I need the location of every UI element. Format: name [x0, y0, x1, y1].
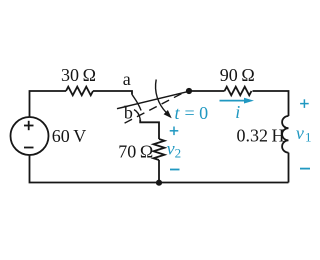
svg-text:30 Ω: 30 Ω — [61, 65, 96, 85]
svg-text:a: a — [123, 69, 131, 89]
voltage source minus sign — [24, 147, 34, 149]
v1 polarity plus — [300, 99, 309, 108]
svg-text:i: i — [235, 102, 240, 122]
svg-text:1: 1 — [305, 130, 312, 145]
switch motion arrowhead — [164, 110, 172, 118]
current arrow i head — [244, 98, 254, 104]
junction dot bottom node — [156, 180, 162, 186]
switch contact b tick — [134, 110, 140, 120]
svg-text:0.32 H: 0.32 H — [236, 126, 284, 146]
svg-text:v: v — [167, 138, 175, 158]
resistor R 70 ohm vertical zigzag — [154, 139, 165, 160]
wire inductor bottom to bottom rail — [288, 153, 290, 183]
svg-text:90 Ω: 90 Ω — [220, 65, 255, 85]
switch contact a tick — [132, 95, 141, 111]
wire pivot to 90 ohm resistor — [189, 90, 225, 92]
switch blade dashed position b — [121, 94, 181, 125]
bottom wire rail — [30, 155, 289, 183]
v2 polarity minus — [170, 169, 180, 171]
v1 polarity minus — [300, 168, 310, 170]
wire source top to 30 ohm resistor — [30, 91, 67, 117]
voltage source V1 circle — [11, 117, 49, 155]
resistor R 30 ohm zigzag — [66, 87, 93, 96]
inductor L 0.32 H coil — [282, 116, 288, 153]
switch motion arc — [156, 80, 167, 113]
wire 30 ohm to switch contact a with stub — [93, 91, 132, 95]
wire contact b down to 70 ohm resistor — [140, 119, 159, 139]
current arrow i shaft — [220, 100, 248, 102]
voltage source plus sign — [24, 121, 34, 130]
wire 70 ohm to bottom node — [158, 160, 160, 183]
svg-text:70 Ω: 70 Ω — [118, 141, 153, 161]
switch pivot dot — [186, 88, 192, 94]
resistor R 90 ohm zigzag — [225, 87, 252, 96]
svg-text:60 V: 60 V — [52, 126, 87, 146]
svg-text:v: v — [296, 123, 304, 143]
svg-text:= 0: = 0 — [185, 103, 209, 123]
v2 polarity plus — [170, 127, 179, 136]
svg-text:2: 2 — [175, 146, 182, 161]
wire 90 ohm to inductor top — [253, 91, 289, 116]
switch blade solid in position a — [117, 91, 189, 108]
svg-text:t: t — [175, 103, 181, 123]
